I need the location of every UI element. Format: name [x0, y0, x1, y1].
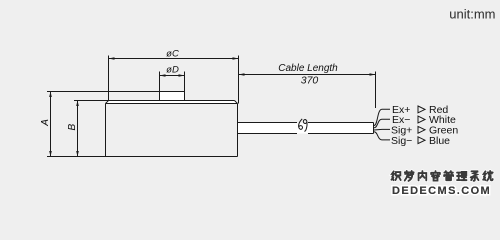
svg-text:Sig−: Sig− [391, 135, 412, 147]
svg-text:B: B [67, 123, 78, 130]
svg-text:Cable Length: Cable Length [278, 63, 338, 74]
svg-text:Blue: Blue [429, 135, 450, 147]
svg-text:370: 370 [301, 74, 319, 86]
svg-text:øC: øC [166, 48, 179, 59]
svg-text:DEDECMS.COM: DEDECMS.COM [392, 185, 491, 197]
svg-text:unit:mm: unit:mm [449, 7, 495, 22]
svg-text:øD: øD [166, 64, 179, 75]
svg-text:A: A [40, 119, 51, 127]
